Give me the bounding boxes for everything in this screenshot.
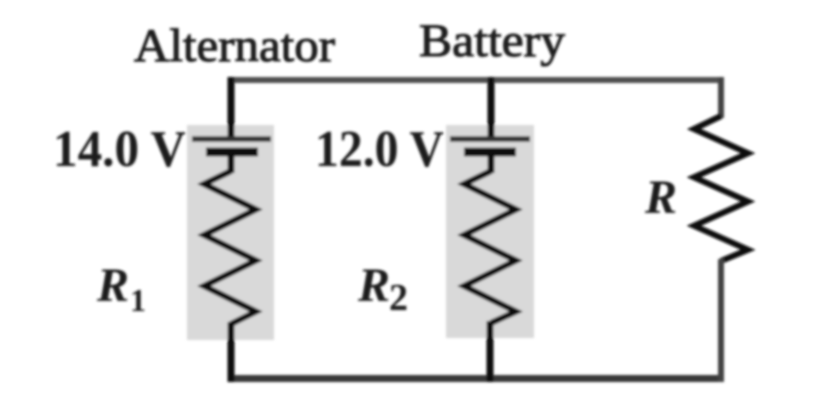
battery V2, short minus plate bbox=[464, 148, 516, 157]
shaded box (battery internal resistance region) bbox=[446, 125, 534, 338]
resistor R zigzag bbox=[694, 116, 748, 261]
svg-text:R: R bbox=[96, 259, 129, 312]
wire bottom (common return node) bbox=[228, 375, 724, 382]
svg-text:12.0 V: 12.0 V bbox=[315, 121, 444, 178]
resistor R2 zigzag bbox=[464, 171, 516, 323]
wire middle branch lower (R2 to bottom wire) bbox=[487, 321, 494, 382]
battery V2, long plus plate bbox=[450, 136, 530, 142]
wire left branch upper (top wire to alternator + plate) bbox=[228, 77, 235, 137]
svg-text:2: 2 bbox=[389, 277, 408, 319]
svg-text:Battery: Battery bbox=[419, 15, 566, 67]
battery V1 alternator, long plus plate bbox=[192, 136, 271, 142]
wire middle branch upper (top wire to battery + plate) bbox=[488, 77, 495, 137]
wire right branch lower (R to bottom wire) bbox=[718, 259, 724, 382]
wire top (node between alternator, battery, R) bbox=[228, 77, 724, 83]
battery V1 alternator, short minus plate bbox=[206, 148, 258, 157]
svg-text:14.0 V: 14.0 V bbox=[53, 121, 186, 178]
svg-text:R: R bbox=[357, 259, 390, 312]
resistor R1 zigzag bbox=[204, 171, 256, 324]
svg-text:1: 1 bbox=[130, 282, 146, 318]
svg-text:R: R bbox=[644, 171, 677, 224]
wire right branch upper (top wire to R) bbox=[718, 77, 724, 118]
svg-text:Alternator: Alternator bbox=[134, 20, 335, 72]
wire left branch lower (R1 to bottom wire) bbox=[228, 322, 235, 382]
wire middle branch middle (V2 minus plate to R2) bbox=[488, 152, 495, 173]
wire left branch middle (V1 minus plate to R1) bbox=[228, 152, 235, 173]
shaded box (alternator internal resistance region) bbox=[187, 125, 274, 340]
